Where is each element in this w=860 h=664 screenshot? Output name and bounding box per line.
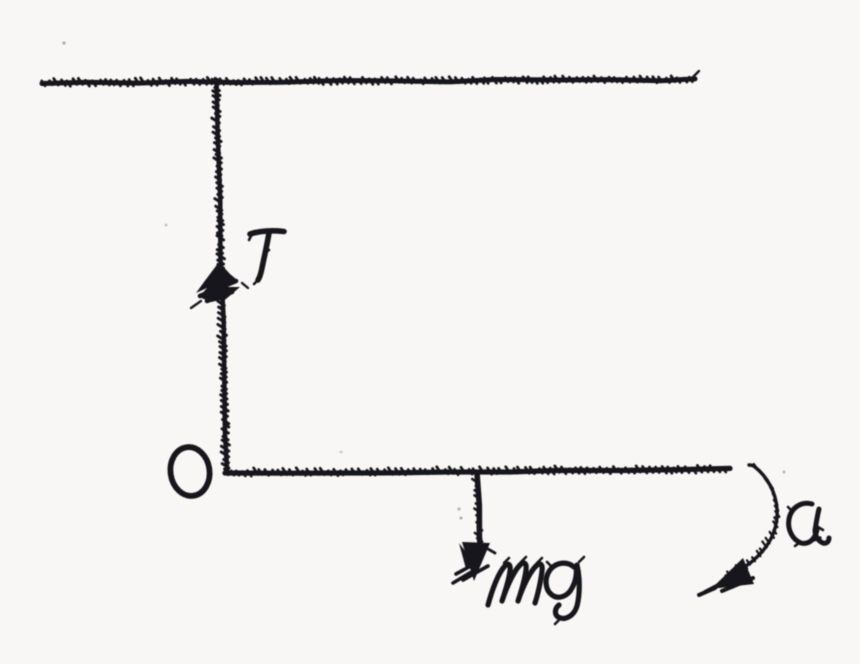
mg arrow stem	[472, 473, 482, 556]
mg arrowhead scribble	[453, 561, 488, 583]
speck	[783, 471, 786, 474]
label T ticks	[249, 236, 269, 284]
alpha arc arrow	[726, 464, 779, 576]
speck	[460, 517, 463, 520]
speck	[340, 451, 343, 454]
mg arrowhead flick	[488, 549, 495, 553]
label alpha ticks	[788, 507, 823, 546]
arrowhead T (up)	[196, 262, 240, 302]
pivot O	[167, 445, 212, 499]
string (tension line)	[212, 79, 230, 470]
speck	[62, 41, 65, 44]
rod	[224, 465, 730, 476]
ceiling end tick	[693, 71, 699, 77]
arrowhead T scribble	[200, 281, 236, 301]
alpha arrowhead scribble	[699, 578, 753, 595]
speck	[458, 508, 461, 511]
label T	[250, 231, 284, 280]
arrowhead T flick	[191, 283, 248, 308]
label mg ticks	[504, 557, 584, 624]
ceiling line	[42, 76, 695, 86]
label alpha	[789, 503, 829, 543]
speck	[165, 224, 168, 227]
label mg	[488, 563, 579, 618]
alpha arrowhead	[711, 558, 754, 589]
mg arrowhead (down)	[459, 542, 490, 581]
